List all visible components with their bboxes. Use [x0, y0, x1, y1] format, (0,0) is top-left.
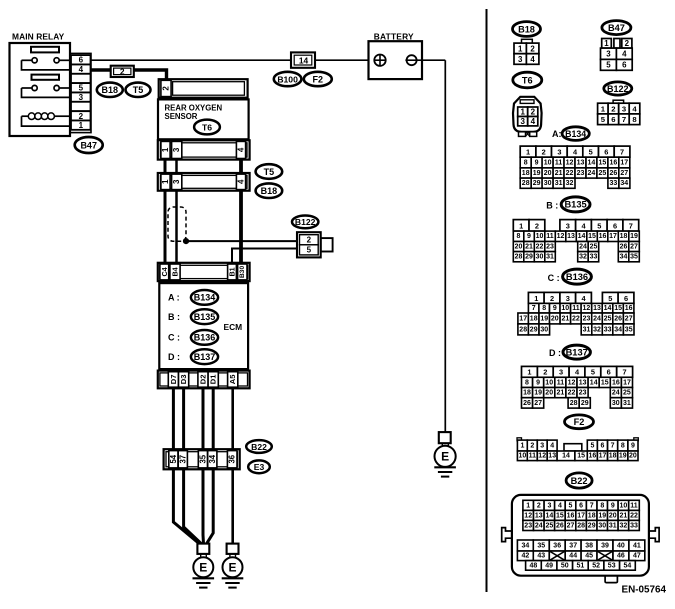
- svg-text:2: 2: [531, 108, 536, 117]
- svg-text:8: 8: [621, 442, 625, 449]
- svg-text:F2: F2: [313, 74, 324, 84]
- svg-text:6: 6: [611, 115, 615, 124]
- svg-text:23: 23: [524, 522, 532, 529]
- connector 2 in-line (B18/T5): [111, 66, 134, 77]
- svg-text:24: 24: [579, 244, 587, 251]
- svg-text:50: 50: [561, 562, 569, 569]
- svg-text:16: 16: [589, 453, 597, 460]
- svg-text:3: 3: [518, 55, 523, 64]
- T6 oval label: [194, 120, 220, 135]
- svg-text:B122: B122: [295, 217, 316, 227]
- harness connector row T5/B18 (pins 1/3/4): [158, 173, 250, 191]
- svg-text:B22: B22: [571, 476, 588, 486]
- svg-text:7: 7: [622, 115, 626, 124]
- svg-text:2: 2: [542, 148, 546, 157]
- connector B122 inline (pins 2/5): [297, 232, 333, 257]
- oxygen sensor top connector row (pin 2): [159, 79, 248, 98]
- svg-text:B134: B134: [565, 129, 586, 139]
- svg-text:20: 20: [545, 390, 553, 397]
- svg-text:13: 13: [567, 233, 575, 240]
- svg-text:22: 22: [566, 170, 574, 177]
- svg-text:52: 52: [592, 562, 600, 569]
- svg-text:43: 43: [537, 553, 545, 560]
- B137 pin grid: [522, 366, 633, 408]
- svg-text:A :: A :: [168, 293, 180, 303]
- svg-text:6: 6: [579, 502, 583, 509]
- svg-text:19: 19: [534, 390, 542, 397]
- svg-text:35: 35: [537, 542, 545, 549]
- svg-text:3: 3: [566, 294, 570, 303]
- svg-text:9: 9: [527, 233, 531, 240]
- svg-text:8: 8: [600, 502, 604, 509]
- svg-text:9: 9: [631, 442, 635, 449]
- svg-text:B18: B18: [102, 85, 119, 95]
- svg-text:34: 34: [614, 326, 622, 333]
- battery - terminal: [405, 55, 417, 65]
- wire shield to B122 pin2: [186, 240, 299, 242]
- svg-text:5: 5: [589, 148, 593, 157]
- svg-text:1: 1: [79, 121, 84, 130]
- svg-text:11: 11: [630, 502, 638, 509]
- svg-text:E: E: [441, 450, 449, 464]
- svg-text:30: 30: [540, 326, 548, 333]
- svg-text:13: 13: [593, 305, 601, 312]
- svg-text:10: 10: [536, 233, 544, 240]
- svg-text:9: 9: [611, 502, 615, 509]
- battery: [369, 31, 423, 79]
- svg-text:34: 34: [620, 180, 628, 187]
- svg-text:A5: A5: [228, 374, 237, 384]
- svg-text:3: 3: [622, 105, 626, 114]
- svg-text:34: 34: [522, 542, 530, 549]
- svg-text:B134: B134: [194, 293, 216, 303]
- svg-text:14: 14: [546, 512, 554, 519]
- svg-text:14: 14: [578, 233, 586, 240]
- svg-text:29: 29: [588, 522, 596, 529]
- svg-text:2: 2: [537, 502, 541, 509]
- svg-text:B47: B47: [608, 23, 625, 33]
- svg-text:24: 24: [588, 170, 596, 177]
- T6 pinout connector: [513, 97, 542, 137]
- svg-text:4: 4: [632, 105, 637, 114]
- svg-text:33: 33: [630, 522, 638, 529]
- rear oxygen sensor box: [158, 99, 249, 139]
- svg-text:33: 33: [604, 326, 612, 333]
- svg-text:27: 27: [630, 244, 638, 251]
- svg-text:25: 25: [604, 315, 612, 322]
- wire pin3 to ECM B4 (shielded): [175, 191, 178, 263]
- svg-text:16: 16: [612, 379, 620, 386]
- svg-text:23: 23: [577, 170, 585, 177]
- svg-text:10: 10: [544, 159, 552, 166]
- svg-text:6: 6: [79, 56, 84, 65]
- svg-text:10: 10: [545, 379, 553, 386]
- svg-text:5: 5: [307, 246, 312, 255]
- svg-text:21: 21: [557, 390, 565, 397]
- svg-text:20: 20: [609, 512, 617, 519]
- svg-text:E: E: [199, 561, 207, 575]
- svg-text:7: 7: [623, 368, 627, 377]
- D: B137 pinout label: [549, 345, 590, 359]
- svg-text:28: 28: [519, 326, 527, 333]
- wire pin36 to ground: [231, 469, 234, 544]
- B18 oval label: [256, 183, 283, 198]
- svg-text:22: 22: [572, 315, 580, 322]
- svg-text:4: 4: [530, 55, 535, 64]
- wire relay pin6 to fuse 14 to battery +: [91, 59, 375, 61]
- B100 oval label: [274, 72, 302, 86]
- B122 pinout oval label: [604, 82, 632, 95]
- B22 pinout connector shell: [502, 495, 659, 583]
- svg-text:22: 22: [536, 244, 544, 251]
- svg-text:15: 15: [588, 233, 596, 240]
- svg-text:2: 2: [550, 294, 554, 303]
- ECM label D: B137: [168, 349, 218, 364]
- svg-text:D7: D7: [169, 375, 178, 385]
- svg-text:25: 25: [623, 390, 631, 397]
- svg-text:4: 4: [622, 50, 627, 59]
- svg-text:32: 32: [579, 254, 587, 261]
- svg-text:1: 1: [520, 442, 524, 449]
- svg-text:24: 24: [612, 390, 620, 397]
- svg-text:B22: B22: [251, 442, 267, 452]
- svg-text:47: 47: [633, 553, 641, 560]
- svg-text:23: 23: [579, 390, 587, 397]
- svg-text:5: 5: [569, 502, 573, 509]
- svg-text:17: 17: [599, 453, 607, 460]
- B18 oval label: [97, 83, 123, 97]
- svg-text:6: 6: [607, 368, 611, 377]
- svg-text:7: 7: [629, 221, 633, 230]
- B122 oval label (inline): [292, 216, 318, 229]
- svg-text:19: 19: [630, 233, 638, 240]
- ground terminal 1: [193, 544, 215, 588]
- svg-text:16: 16: [610, 159, 618, 166]
- wire battery - to ground E: [417, 60, 446, 432]
- svg-text:17: 17: [609, 233, 617, 240]
- svg-text:20: 20: [544, 170, 552, 177]
- ECM top connector row (C4/B4/B1/B30): [158, 263, 250, 281]
- battery + terminal: [374, 55, 385, 66]
- wire B122 pin5 to ECM B1: [232, 249, 299, 263]
- svg-text:13: 13: [577, 159, 585, 166]
- svg-text:18: 18: [588, 512, 596, 519]
- svg-text:53: 53: [608, 562, 616, 569]
- svg-text:5: 5: [606, 61, 611, 70]
- svg-text:28: 28: [570, 400, 578, 407]
- svg-text:ECM: ECM: [224, 322, 243, 332]
- svg-text:T5: T5: [264, 167, 275, 177]
- B135 pin grid: [513, 220, 639, 262]
- svg-text:3: 3: [540, 442, 544, 449]
- svg-text:12: 12: [538, 453, 546, 460]
- svg-text:26: 26: [523, 400, 531, 407]
- svg-text:B18: B18: [261, 186, 278, 196]
- svg-text:21: 21: [525, 244, 533, 251]
- E3 oval label: [248, 460, 270, 473]
- svg-text:12: 12: [583, 305, 591, 312]
- svg-text:1: 1: [526, 502, 530, 509]
- svg-text:2: 2: [79, 112, 84, 121]
- svg-text:18: 18: [620, 233, 628, 240]
- svg-text:5: 5: [601, 115, 606, 124]
- svg-text:15: 15: [577, 453, 585, 460]
- svg-text:17: 17: [623, 379, 631, 386]
- F2 oval label: [304, 72, 332, 86]
- svg-text:2: 2: [530, 442, 534, 449]
- svg-text:1: 1: [527, 368, 531, 377]
- svg-text:21: 21: [562, 315, 570, 322]
- svg-text:13: 13: [579, 379, 587, 386]
- svg-text:16: 16: [567, 512, 575, 519]
- svg-text:45: 45: [585, 553, 593, 560]
- svg-text:B1: B1: [228, 267, 237, 276]
- svg-text:24: 24: [593, 315, 601, 322]
- svg-text:B30: B30: [239, 266, 246, 278]
- svg-text:46: 46: [617, 553, 625, 560]
- relay contact bar 1: [31, 47, 59, 53]
- svg-text:51: 51: [577, 562, 585, 569]
- B136 pin grid: [518, 292, 634, 335]
- svg-text:26: 26: [614, 315, 622, 322]
- svg-text:25: 25: [546, 522, 554, 529]
- svg-text:6: 6: [613, 221, 617, 230]
- svg-text:26: 26: [556, 522, 564, 529]
- svg-text:5: 5: [591, 368, 595, 377]
- svg-text:2: 2: [120, 67, 125, 77]
- wire pin1 to ECM C4: [164, 191, 167, 263]
- svg-text:1: 1: [519, 221, 523, 230]
- B22 pinout oval label: [566, 473, 592, 488]
- svg-text:F2: F2: [574, 417, 585, 427]
- svg-text:26: 26: [620, 244, 628, 251]
- svg-text:3: 3: [557, 148, 561, 157]
- svg-text:3: 3: [559, 368, 563, 377]
- B47 pinout connector: [601, 39, 633, 71]
- svg-text:B137: B137: [566, 347, 588, 357]
- svg-text:39: 39: [601, 542, 609, 549]
- svg-text:11: 11: [557, 379, 565, 386]
- svg-text:20: 20: [629, 453, 637, 460]
- svg-text:C :: C :: [548, 273, 560, 283]
- svg-text:16: 16: [625, 305, 633, 312]
- main relay box: [10, 32, 71, 137]
- svg-text:3: 3: [172, 147, 181, 152]
- svg-text:8: 8: [524, 159, 528, 166]
- svg-text:2: 2: [530, 44, 535, 53]
- svg-text:4: 4: [79, 65, 84, 74]
- svg-text:21: 21: [555, 170, 563, 177]
- svg-text:D3: D3: [179, 375, 188, 385]
- svg-text:32: 32: [566, 180, 574, 187]
- relay switch 1 (pins 6/4): [22, 58, 70, 70]
- svg-text:D2: D2: [199, 375, 208, 385]
- svg-text:19: 19: [619, 453, 627, 460]
- body connector row B22/E3 (54/37/35/34/36): [164, 449, 240, 469]
- svg-text:20: 20: [551, 315, 559, 322]
- svg-text:SENSOR: SENSOR: [165, 112, 198, 121]
- svg-text:18: 18: [530, 315, 538, 322]
- svg-text:B :: B :: [168, 312, 180, 322]
- svg-text:4: 4: [550, 442, 554, 449]
- svg-text:D :: D :: [168, 352, 180, 362]
- svg-text:12: 12: [566, 159, 574, 166]
- svg-text:37: 37: [569, 542, 577, 549]
- svg-text:14: 14: [562, 453, 570, 460]
- svg-text:12: 12: [568, 379, 576, 386]
- svg-text:8: 8: [542, 305, 546, 312]
- svg-text:1: 1: [520, 108, 525, 117]
- relay switch 2 (pins 5/3): [22, 85, 70, 97]
- svg-text:6: 6: [604, 148, 608, 157]
- svg-text:18: 18: [522, 170, 530, 177]
- svg-text:4: 4: [558, 502, 562, 509]
- svg-text:B100: B100: [277, 74, 298, 84]
- svg-text:2: 2: [307, 236, 312, 245]
- svg-text:12: 12: [557, 233, 565, 240]
- shield junction dot: [183, 238, 189, 244]
- svg-text:1: 1: [518, 44, 523, 53]
- svg-text:3: 3: [566, 221, 570, 230]
- svg-text:44: 44: [569, 553, 577, 560]
- svg-text:D1: D1: [209, 374, 218, 384]
- svg-text:BATTERY: BATTERY: [374, 31, 414, 41]
- svg-text:34: 34: [620, 254, 628, 261]
- svg-text:6: 6: [622, 61, 627, 70]
- svg-text:21: 21: [620, 512, 628, 519]
- shield dashed box: [168, 207, 186, 241]
- svg-text:T6: T6: [522, 75, 533, 85]
- svg-text:25: 25: [590, 244, 598, 251]
- svg-text:5: 5: [79, 84, 84, 93]
- svg-text:D :: D :: [549, 348, 561, 358]
- svg-text:6: 6: [624, 294, 628, 303]
- svg-text:23: 23: [583, 315, 591, 322]
- svg-text:4: 4: [237, 147, 246, 152]
- svg-text:2: 2: [162, 86, 171, 91]
- svg-text:33: 33: [610, 180, 618, 187]
- svg-text:11: 11: [555, 159, 563, 166]
- svg-text:B136: B136: [194, 333, 216, 343]
- wire pin4 to ECM B30 (bold): [239, 191, 243, 263]
- panel divider line: [486, 9, 488, 592]
- svg-text:22: 22: [568, 390, 576, 397]
- ECM label B: B135: [168, 309, 218, 324]
- svg-text:30: 30: [598, 522, 606, 529]
- wires converging to ground terminal: [173, 469, 213, 544]
- svg-text:EN-05764: EN-05764: [622, 585, 667, 596]
- B22 pin grid upper: [523, 500, 639, 530]
- svg-text:T5: T5: [133, 85, 144, 95]
- svg-text:14: 14: [590, 379, 598, 386]
- svg-text:10: 10: [561, 305, 569, 312]
- svg-text:2: 2: [535, 221, 539, 230]
- svg-text:30: 30: [612, 400, 620, 407]
- svg-text:22: 22: [630, 512, 638, 519]
- ECM label C: B136: [168, 330, 218, 345]
- wires sensor to harness connector: [165, 160, 241, 174]
- svg-text:B135: B135: [564, 200, 586, 210]
- svg-text:27: 27: [625, 315, 633, 322]
- B122 pinout connector: [598, 100, 640, 124]
- svg-text:20: 20: [515, 244, 523, 251]
- C: B136 pinout label: [548, 269, 592, 284]
- F2 pinout oval label: [565, 415, 594, 429]
- svg-text:32: 32: [593, 326, 601, 333]
- svg-text:6: 6: [601, 442, 605, 449]
- svg-text:8: 8: [525, 379, 529, 386]
- svg-text:14: 14: [299, 55, 309, 65]
- svg-text:3: 3: [172, 179, 181, 184]
- ECM bottom connector row (D7/D3/D2/D1/A5): [158, 371, 250, 389]
- wire relay pin4 to oxygen sensor pin2 (bold): [91, 70, 167, 81]
- svg-text:14: 14: [588, 159, 596, 166]
- ground terminal and E (battery circuit): [434, 432, 456, 477]
- svg-text:B136: B136: [566, 272, 588, 282]
- B47 pinout oval label: [602, 21, 631, 35]
- svg-text:19: 19: [540, 315, 548, 322]
- svg-text:11: 11: [529, 453, 537, 460]
- svg-text:13: 13: [548, 453, 556, 460]
- ECM label A: B134: [168, 290, 218, 305]
- B: B135 pinout label: [546, 197, 590, 212]
- B18 pinout oval label: [513, 22, 541, 37]
- svg-text:5: 5: [597, 221, 601, 230]
- svg-text:19: 19: [598, 512, 606, 519]
- svg-text:15: 15: [601, 379, 609, 386]
- svg-text:29: 29: [525, 254, 533, 261]
- svg-text:30: 30: [544, 180, 552, 187]
- svg-text:24: 24: [535, 522, 543, 529]
- svg-text:28: 28: [522, 180, 530, 187]
- svg-text:27: 27: [620, 170, 628, 177]
- svg-text:31: 31: [546, 254, 554, 261]
- svg-text:23: 23: [546, 244, 554, 251]
- svg-text:15: 15: [599, 159, 607, 166]
- svg-text:1: 1: [161, 179, 170, 184]
- svg-text:1: 1: [601, 105, 606, 114]
- fuse 14 in-line (B100/F2): [291, 52, 315, 67]
- svg-text:3: 3: [547, 502, 551, 509]
- svg-text:41: 41: [633, 542, 641, 549]
- svg-text:17: 17: [519, 315, 527, 322]
- B134 pin grid: [520, 146, 630, 188]
- svg-text:B135: B135: [194, 312, 216, 322]
- T6 pinout oval label: [513, 72, 542, 88]
- svg-text:35: 35: [625, 326, 633, 333]
- svg-text:49: 49: [545, 562, 553, 569]
- svg-text:29: 29: [530, 326, 538, 333]
- F2 pin grid: [517, 438, 638, 461]
- svg-text:5: 5: [590, 442, 594, 449]
- svg-text:7: 7: [611, 442, 615, 449]
- svg-text:10: 10: [519, 453, 527, 460]
- svg-text:33: 33: [590, 254, 598, 261]
- svg-text:54: 54: [169, 454, 178, 463]
- svg-text:1: 1: [534, 294, 538, 303]
- svg-text:12: 12: [524, 512, 532, 519]
- B18 pinout connector: [514, 39, 539, 64]
- svg-text:10: 10: [620, 502, 628, 509]
- relay contact bar 2: [32, 75, 60, 80]
- svg-text:32: 32: [620, 522, 628, 529]
- svg-text:25: 25: [599, 170, 607, 177]
- svg-text:7: 7: [590, 502, 594, 509]
- svg-text:28: 28: [515, 254, 523, 261]
- svg-text:1: 1: [161, 147, 170, 152]
- ground terminal 2: [222, 544, 244, 588]
- svg-text:29: 29: [533, 180, 541, 187]
